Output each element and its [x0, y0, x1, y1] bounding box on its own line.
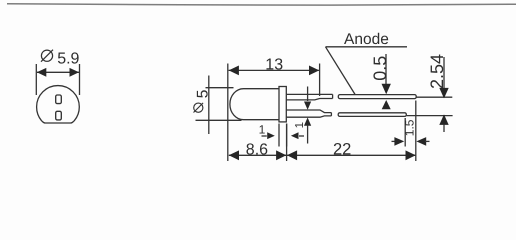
dim 1.5 arrow right (outside)	[416, 137, 426, 146]
dim 1 flange right extension line	[286, 124, 288, 147]
cathode lead thick section	[286, 110, 331, 117]
dim 1 lead lower arrow	[304, 118, 311, 126]
dim 2.54 up arrow	[439, 114, 448, 125]
anode lead long segment	[338, 95, 416, 99]
dim 22 dimension line	[287, 154, 415, 156]
dim 5.9 extension line left	[35, 64, 37, 95]
anode lead thick section	[286, 94, 332, 100]
dim 5.9 arrow left	[37, 68, 47, 77]
svg-text:1: 1	[259, 123, 266, 137]
dim 8.6/22 shared extension line at flange	[286, 124, 288, 162]
dim 5.9 arrow right	[70, 68, 80, 77]
dim 22 arrow right	[406, 150, 416, 160]
svg-text:Anode: Anode	[344, 31, 389, 48]
dim phi5 bottom extension line	[196, 119, 242, 121]
dim 1 flange left extension line	[278, 124, 280, 147]
anode lead break end	[332, 94, 334, 98]
dim 22 arrow left	[287, 150, 297, 160]
dim 5.9 dimension line	[37, 71, 79, 73]
svg-text:1.5: 1.5	[402, 119, 416, 136]
faint top scan line	[7, 4, 516, 5]
dim 2.54 upper shaft	[443, 57, 445, 88]
LED top-view body outline	[37, 86, 80, 123]
svg-text:0.5: 0.5	[370, 56, 390, 81]
dim 13 left extension line (shared with 8.6)	[227, 64, 229, 162]
dim 1 flange arrow left (outside)	[262, 135, 267, 137]
dim 2.54 lower shaft	[443, 125, 445, 133]
svg-text:13: 13	[265, 56, 283, 73]
dim 1 lead upper arrow	[304, 102, 311, 110]
dim 2.54 down arrow	[439, 88, 448, 99]
dim 0.5 arrow shaft	[385, 54, 387, 85]
dim phi5 dimension line	[208, 76, 210, 135]
dim 13 arrow left	[229, 66, 239, 76]
dim 1.5 arrow left (outside)	[392, 140, 396, 142]
dim 1 flange arrow right (outside)	[291, 132, 299, 139]
dim 8.6 arrow left	[229, 150, 239, 160]
svg-text:2.54: 2.54	[427, 54, 447, 89]
diameter symbol for phi5	[194, 103, 204, 113]
dim 13 dimension line	[229, 69, 319, 71]
cathode lead break end	[330, 113, 332, 116]
dim 8.6 dimension line	[229, 154, 286, 156]
dim 0.5 up arrow below lead	[382, 100, 391, 109]
dim 13 right extension line	[319, 64, 321, 97]
svg-text:5: 5	[195, 90, 212, 99]
dim phi5 top extension line	[206, 87, 234, 89]
LED body capsule (side view)	[230, 89, 279, 120]
svg-text:22: 22	[333, 140, 351, 158]
dim 2.54 upper extension line	[417, 96, 453, 98]
svg-text:5.9: 5.9	[57, 50, 79, 67]
dim 22 right extension line (shared with 1.5)	[415, 101, 417, 162]
dim 13 arrow right	[309, 66, 319, 76]
dim 5.9 extension line right	[79, 64, 81, 95]
anode underline	[326, 46, 408, 48]
svg-text:8.6: 8.6	[246, 141, 268, 158]
cathode lead long segment	[338, 113, 406, 117]
lead pad upper (top view)	[56, 95, 62, 104]
dim 1 lead lower shaft	[307, 125, 309, 143]
dim 8.6 arrow right	[276, 150, 286, 160]
dim 1.5 left extension line	[404, 118, 406, 147]
lead pad lower (top view)	[56, 111, 62, 120]
dim 1 cathode lead thickness upper arrow shaft	[307, 87, 309, 102]
dim 2.54 lower extension line	[407, 115, 453, 117]
svg-text:1: 1	[294, 122, 306, 128]
flange	[279, 87, 286, 122]
anode leader line	[326, 47, 356, 95]
diameter symbol for 5.9	[41, 50, 53, 62]
dim 0.5 down arrow	[382, 84, 391, 95]
